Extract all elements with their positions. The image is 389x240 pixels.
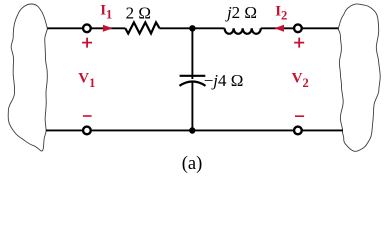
wire: node A down to capacitor — [191, 28, 193, 79]
current arrow I2 — [274, 25, 284, 32]
wire top-left: blob to terminal — [47, 27, 87, 29]
polarity plus V1 — [82, 38, 92, 48]
resistor 2ohm — [125, 22, 159, 33]
external network blob left — [8, 4, 47, 151]
wire top: resistor to node A — [160, 27, 225, 29]
svg-text:j2 Ω: j2 Ω — [225, 3, 257, 22]
terminal top-left — [83, 24, 91, 32]
wire top-right: terminal to blob — [298, 27, 339, 29]
terminal top-right — [294, 24, 302, 32]
terminal bottom-left — [83, 127, 91, 135]
svg-text:2 Ω: 2 Ω — [126, 3, 151, 22]
capacitor -j4ohm top plate — [180, 75, 206, 77]
wire top: inductor to right terminal — [261, 27, 298, 29]
terminal bottom-right — [294, 127, 302, 135]
polarity plus V2 — [294, 38, 304, 48]
wire top: terminal to resistor — [87, 27, 125, 29]
capacitor -j4ohm curved plate — [180, 82, 206, 86]
external network blob right — [338, 4, 380, 151]
svg-text:(a): (a) — [182, 154, 203, 174]
svg-text:−j4 Ω: −j4 Ω — [204, 71, 244, 90]
inductor j2ohm — [225, 28, 261, 34]
wire bottom: blob to blob — [46, 129, 343, 131]
polarity minus V2 — [295, 115, 304, 117]
polarity minus V1 — [83, 115, 92, 117]
current arrow I1 — [103, 25, 113, 32]
node A junction dot — [189, 25, 195, 31]
wire: capacitor down to node B — [191, 82, 193, 130]
node B junction dot — [189, 127, 195, 133]
